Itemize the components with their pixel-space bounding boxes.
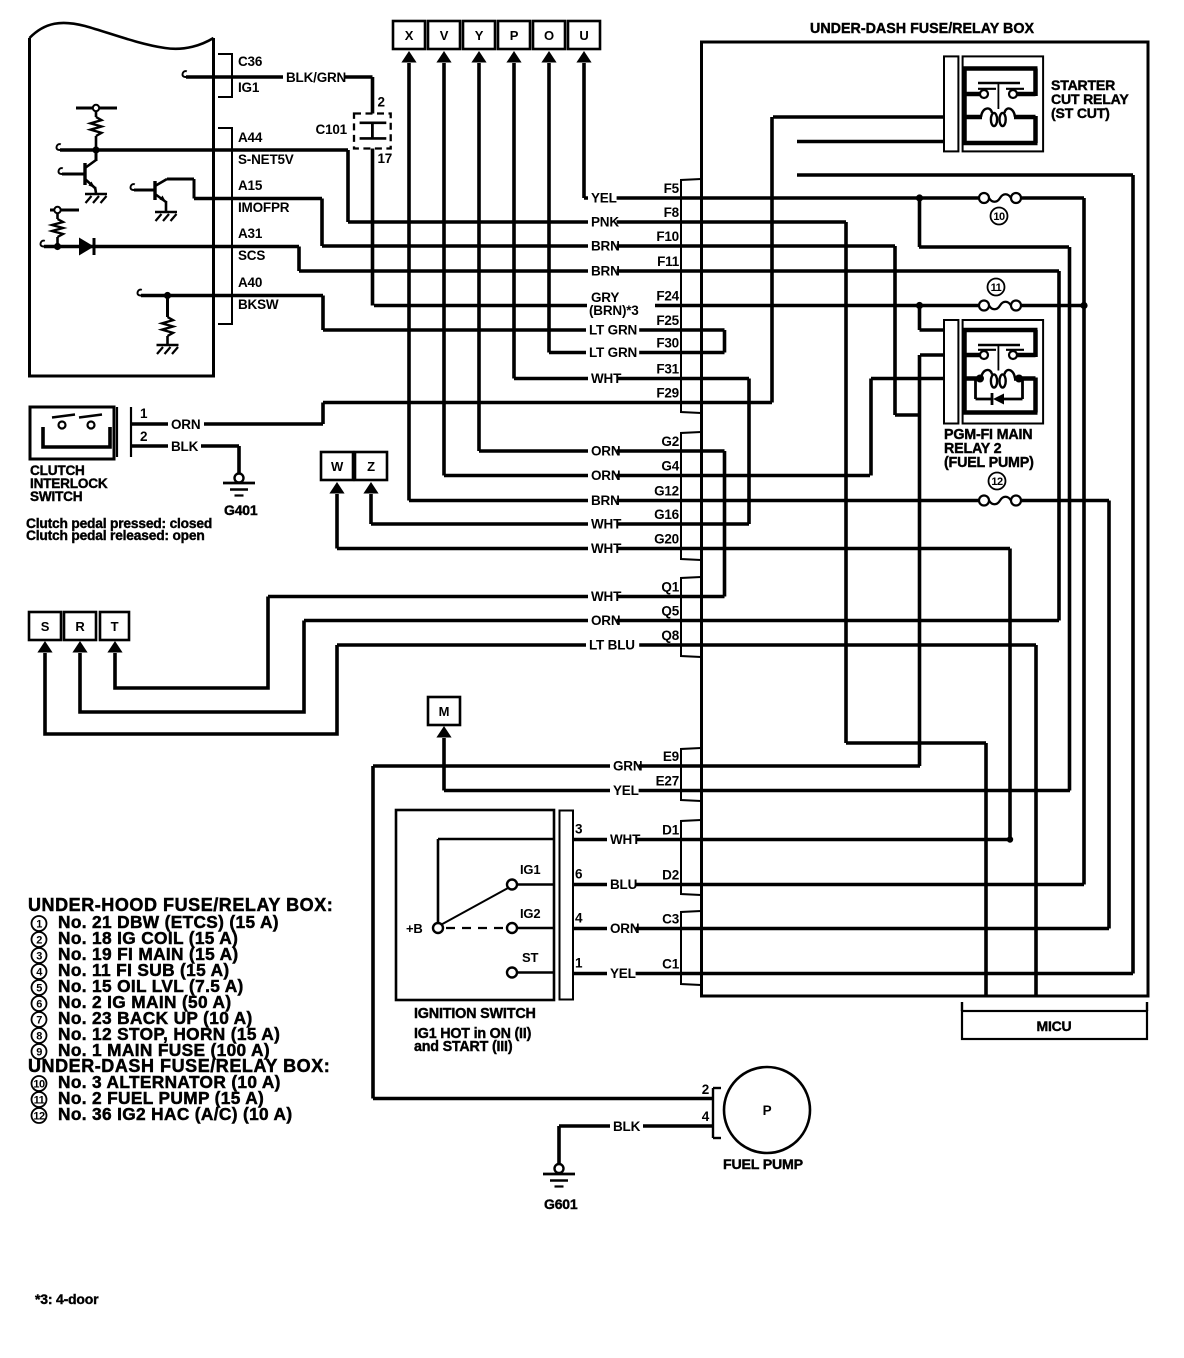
svg-text:17: 17 <box>378 151 393 166</box>
svg-text:BLK: BLK <box>171 439 199 454</box>
svg-text:Q8: Q8 <box>661 628 679 643</box>
svg-text:1: 1 <box>140 406 148 421</box>
svg-text:F24: F24 <box>656 289 679 304</box>
svg-text:6: 6 <box>36 999 42 1011</box>
svg-text:LT GRN: LT GRN <box>589 323 637 338</box>
svg-text:ORN: ORN <box>171 417 200 432</box>
svg-text:Q5: Q5 <box>661 604 679 619</box>
svg-text:WHT: WHT <box>591 517 622 532</box>
svg-text:4: 4 <box>575 911 583 926</box>
svg-text:BLU: BLU <box>610 877 637 892</box>
svg-text:V: V <box>440 28 449 43</box>
svg-text:No. 36 IG2 HAC (A/C) (10 A): No. 36 IG2 HAC (A/C) (10 A) <box>58 1104 292 1124</box>
svg-text:6: 6 <box>575 867 583 882</box>
svg-text:IGNITION SWITCH: IGNITION SWITCH <box>414 1006 536 1022</box>
svg-text:ORN: ORN <box>591 444 620 459</box>
svg-text:YEL: YEL <box>613 783 639 798</box>
svg-text:T: T <box>111 619 119 634</box>
svg-text:BKSW: BKSW <box>238 297 279 312</box>
svg-text:12: 12 <box>991 476 1003 488</box>
svg-text:WHT: WHT <box>591 589 622 604</box>
svg-text:C3: C3 <box>662 912 680 927</box>
svg-text:2: 2 <box>36 935 42 947</box>
svg-text:A40: A40 <box>238 275 262 290</box>
svg-text:(FUEL PUMP): (FUEL PUMP) <box>944 455 1034 471</box>
svg-text:R: R <box>75 619 85 634</box>
svg-text:W: W <box>331 459 344 474</box>
svg-text:1: 1 <box>575 956 583 971</box>
svg-text:ORN: ORN <box>591 613 620 628</box>
svg-text:and START (III): and START (III) <box>414 1039 513 1055</box>
svg-text:S-NET5V: S-NET5V <box>238 152 294 167</box>
svg-text:(BRN)*3: (BRN)*3 <box>589 303 639 318</box>
svg-text:C101: C101 <box>316 122 348 137</box>
svg-text:BLK/GRN: BLK/GRN <box>286 70 346 85</box>
svg-text:MICU: MICU <box>1037 1018 1072 1034</box>
svg-text:G16: G16 <box>654 507 680 522</box>
svg-text:A15: A15 <box>238 178 263 193</box>
svg-text:F8: F8 <box>664 205 680 220</box>
svg-text:C36: C36 <box>238 54 263 69</box>
svg-text:PNK: PNK <box>591 215 619 230</box>
svg-text:X: X <box>405 28 414 43</box>
svg-text:YEL: YEL <box>610 966 636 981</box>
svg-text:2: 2 <box>140 429 147 444</box>
svg-text:11: 11 <box>34 1095 45 1107</box>
svg-text:M: M <box>439 704 450 719</box>
svg-text:5: 5 <box>36 983 42 995</box>
svg-text:F30: F30 <box>656 336 679 351</box>
svg-text:G4: G4 <box>661 459 679 474</box>
svg-text:LT GRN: LT GRN <box>589 345 637 360</box>
svg-text:UNDER-DASH FUSE/RELAY BOX: UNDER-DASH FUSE/RELAY BOX <box>810 21 1034 37</box>
svg-text:O: O <box>544 28 554 43</box>
svg-text:12: 12 <box>33 1111 45 1123</box>
svg-text:+B: +B <box>406 921 423 936</box>
svg-text:Q1: Q1 <box>661 580 679 595</box>
svg-text:E9: E9 <box>663 749 679 764</box>
svg-text:3: 3 <box>575 822 583 837</box>
svg-text:C1: C1 <box>662 957 680 972</box>
svg-text:A31: A31 <box>238 226 263 241</box>
svg-text:IMOFPR: IMOFPR <box>238 200 290 215</box>
svg-text:WHT: WHT <box>591 371 622 386</box>
svg-text:GRN: GRN <box>613 759 642 774</box>
svg-text:FUEL PUMP: FUEL PUMP <box>723 1157 803 1173</box>
svg-text:YEL: YEL <box>591 191 617 206</box>
svg-text:G2: G2 <box>661 434 679 449</box>
svg-text:1: 1 <box>36 919 42 931</box>
svg-text:3: 3 <box>36 951 42 963</box>
svg-text:F25: F25 <box>656 313 679 328</box>
svg-text:P: P <box>763 1103 772 1118</box>
svg-text:ORN: ORN <box>610 921 639 936</box>
svg-text:*3: 4-door: *3: 4-door <box>35 1291 99 1307</box>
svg-text:E27: E27 <box>656 774 679 789</box>
svg-text:U: U <box>579 28 588 43</box>
svg-text:SCS: SCS <box>238 248 265 263</box>
svg-text:IG1: IG1 <box>238 80 260 95</box>
svg-text:BLK: BLK <box>613 1119 641 1134</box>
svg-text:F5: F5 <box>664 181 680 196</box>
svg-text:S: S <box>41 619 50 634</box>
svg-text:BRN: BRN <box>591 493 620 508</box>
svg-text:SWITCH: SWITCH <box>30 489 82 504</box>
svg-text:Clutch pedal released: open: Clutch pedal released: open <box>26 528 205 543</box>
svg-text:11: 11 <box>991 282 1002 294</box>
svg-text:WHT: WHT <box>610 832 641 847</box>
svg-text:G12: G12 <box>654 484 679 499</box>
svg-text:BRN: BRN <box>591 264 620 279</box>
svg-text:LT BLU: LT BLU <box>589 638 635 653</box>
svg-text:F29: F29 <box>656 386 679 401</box>
svg-text:IG2: IG2 <box>520 906 540 921</box>
svg-text:(ST CUT): (ST CUT) <box>1051 105 1110 121</box>
svg-text:G20: G20 <box>654 532 679 547</box>
svg-text:Y: Y <box>475 28 484 43</box>
svg-text:D2: D2 <box>662 868 679 883</box>
svg-text:WHT: WHT <box>591 541 622 556</box>
svg-text:F10: F10 <box>656 229 679 244</box>
svg-text:2: 2 <box>378 95 385 110</box>
svg-text:G401: G401 <box>224 502 258 518</box>
svg-text:IG1: IG1 <box>520 862 540 877</box>
svg-text:4: 4 <box>702 1109 710 1124</box>
svg-text:G601: G601 <box>544 1196 578 1212</box>
svg-text:A44: A44 <box>238 130 263 145</box>
svg-text:P: P <box>510 28 519 43</box>
svg-text:Z: Z <box>367 459 375 474</box>
svg-text:2: 2 <box>702 1082 709 1097</box>
svg-text:10: 10 <box>993 211 1005 223</box>
svg-text:ORN: ORN <box>591 468 620 483</box>
svg-text:F31: F31 <box>656 362 679 377</box>
svg-text:F11: F11 <box>657 254 680 269</box>
svg-text:BRN: BRN <box>591 239 620 254</box>
svg-text:8: 8 <box>36 1031 42 1043</box>
svg-text:ST: ST <box>522 950 538 965</box>
svg-text:10: 10 <box>33 1079 45 1091</box>
svg-text:7: 7 <box>36 1015 42 1027</box>
svg-text:D1: D1 <box>662 823 680 838</box>
